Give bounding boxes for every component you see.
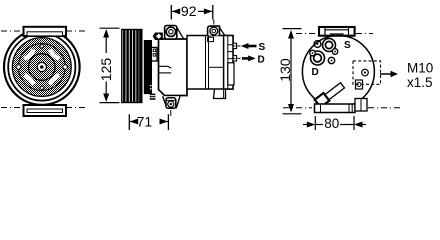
clutch plate (side, black) [144,41,151,94]
bolt ring mid [328,57,334,63]
svg-text:S: S [344,40,351,51]
top bracket [319,27,355,36]
clutch face gray disc [12,38,71,97]
hub circle [29,54,56,81]
port bosses right of cap [233,43,237,48]
clutch plate notches [150,86,152,89]
center bearing [37,62,46,71]
svg-text:92: 92 [181,3,197,19]
bottom ear [163,96,180,107]
body division lines [205,36,207,90]
S port [323,39,336,52]
S arrow [246,45,257,48]
bolt ring top [314,41,321,48]
arrow to M10 [380,73,392,75]
svg-text:80: 80 [324,116,339,131]
dash-dot mid right [337,59,374,61]
centerline top [296,33,317,35]
bolt ring right (M10) [362,69,369,76]
S port leader dashes [233,45,241,47]
ear2 gusset [219,27,225,35]
main circle [302,36,374,108]
small rect with circle [356,80,363,89]
dim line [105,32,107,54]
svg-text:D: D [312,67,319,78]
dashed callout box [353,61,381,84]
belt top [24,27,67,36]
belt bottom [24,105,67,116]
top-right ear block [208,26,220,35]
pulley second rim circle [8,33,75,100]
white swoosh arcs [24,50,59,85]
drive lugs E/W [16,64,68,70]
bottom-right foot [214,89,226,99]
diagonal label plate [315,81,345,107]
top center mark [213,20,215,25]
step block lines [150,96,155,98]
step block under clutch [150,94,156,100]
svg-text:M10: M10 [407,61,433,76]
svg-text:S: S [259,42,266,53]
pulley ribs [122,30,142,103]
wires [159,66,172,67]
front housing [159,39,188,96]
slot boundary circle [18,44,65,91]
ext ticks [100,27,120,29]
svg-text:125: 125 [98,58,114,82]
D arrow [242,57,250,60]
pulley outer rim circle [4,29,80,105]
svg-text:x1.5: x1.5 [407,75,433,90]
D port [311,51,325,65]
bottom foot [315,104,356,113]
pentagon lug with diamond hole [153,33,162,40]
right boss [355,99,367,112]
svg-text:71: 71 [137,113,153,129]
D port leader dashes [233,57,242,59]
centerline bottom [1,107,88,109]
svg-text:130: 130 [277,58,293,82]
main body [187,36,233,90]
ear1 gusset [177,27,184,38]
diamond holes [40,44,44,90]
svg-text:D: D [258,54,265,65]
centerline top [1,30,88,32]
connector [151,47,157,61]
top-left ear block [165,26,177,40]
centerline bottom [283,107,312,109]
rear cap [224,36,233,90]
